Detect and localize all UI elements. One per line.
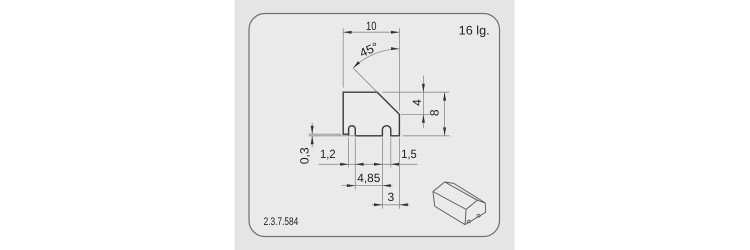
arrow 1,5 left	[374, 163, 382, 166]
extension line foot level	[309, 133, 341, 135]
dimension line 4,85	[342, 185, 393, 187]
arrow 8 bottom	[443, 127, 446, 135]
gray panel	[235, 0, 515, 250]
svg-text:4,85: 4,85	[357, 171, 380, 185]
dimension line 0,3 upper	[311, 123, 313, 134]
rounded border box	[249, 14, 500, 237]
arrow 1,2 left	[340, 163, 348, 166]
svg-text:1,5: 1,5	[401, 147, 417, 161]
3d bar top-left ridge	[433, 192, 466, 210]
3d groove loop left	[467, 220, 470, 223]
profile cross-section outline	[343, 92, 399, 136]
arrow 0,3 bottom	[311, 136, 314, 144]
svg-text:0,3: 0,3	[298, 147, 312, 164]
extension line right notch right leg	[390, 138, 392, 168]
arrow 1,2 right	[355, 163, 363, 166]
45deg construction line	[353, 68, 377, 92]
arrow 3 right	[399, 203, 407, 206]
arrow 4,85 left	[347, 184, 355, 187]
3d bar far top edge	[433, 182, 445, 192]
dimension line 0,3 lower	[311, 136, 313, 148]
extension line top edge right	[383, 91, 450, 93]
dimension line 8	[444, 92, 446, 136]
svg-text:8: 8	[427, 109, 441, 116]
svg-text:3: 3	[388, 190, 395, 204]
3d bar near end face	[465, 200, 486, 224]
extension line right for 10 and 45deg	[398, 28, 400, 110]
arrow 4 top	[422, 84, 425, 92]
extension line left for 10	[342, 28, 344, 87]
3d bar bottom-left ridge	[435, 206, 465, 224]
extension line chamfer end	[401, 113, 430, 115]
3d groove loop right	[477, 214, 480, 217]
extension line left notch right leg	[354, 138, 356, 190]
extension line bottom level left	[309, 135, 356, 137]
dimension line 1,2 1,5	[319, 163, 418, 165]
arrow 45deg upper	[391, 47, 399, 50]
3d bar chamfer-start ridge	[445, 182, 478, 200]
45deg dimension arc	[353, 49, 399, 68]
arrow 8 top	[443, 92, 446, 100]
svg-text:16 lg.: 16 lg.	[459, 23, 490, 37]
arrow 3 left	[374, 203, 382, 206]
svg-text:1,2: 1,2	[320, 147, 336, 161]
dimension line 3	[372, 204, 409, 206]
3d bar far left edge	[433, 192, 435, 207]
svg-text:2.3.7.584: 2.3.7.584	[264, 216, 299, 228]
svg-text:4: 4	[410, 99, 424, 106]
dimension line 4	[422, 76, 424, 129]
3d bar chamfer-end ridge	[454, 183, 485, 203]
arrow 10 left	[343, 31, 351, 34]
extension line profile right edge down	[398, 138, 400, 209]
3d bar far chamfer edge	[445, 182, 454, 183]
arrow 4,85 right	[382, 184, 390, 187]
extension line foot right leg	[348, 138, 350, 168]
arrow 0,3 top	[311, 126, 314, 134]
arrow 1,5 right	[391, 163, 399, 166]
svg-text:10: 10	[366, 19, 377, 33]
dimension line 10	[343, 31, 399, 33]
arrow 45deg lower	[353, 61, 360, 68]
arrow 4 bottom	[422, 114, 425, 122]
extension line right notch left leg	[381, 138, 383, 209]
arrow 10 right	[391, 31, 399, 34]
extension line bottom right	[403, 135, 450, 137]
